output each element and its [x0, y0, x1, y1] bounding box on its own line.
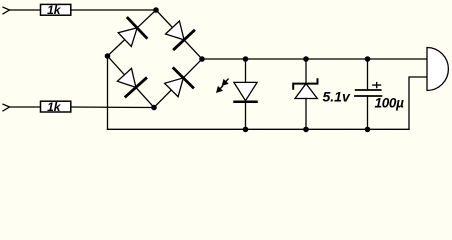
- wire: bridge bottom-right diagonal: [154, 59, 202, 108]
- wire: R2 to bridge bottom node (crosses vertical wire, no junction): [71, 106, 154, 109]
- wire: top input to R1: [10, 9, 41, 11]
- wire: zener top lead: [305, 59, 307, 84]
- node: bottom rail / zener: [303, 127, 309, 133]
- LED D5: [216, 79, 257, 102]
- node: top rail / LED: [243, 56, 249, 62]
- wire: LED top lead: [245, 59, 247, 82]
- node: top rail / zener: [303, 56, 309, 62]
- node: bridge right junction: [199, 56, 205, 62]
- wire: capacitor bottom lead: [367, 96, 369, 129]
- zener diode D6 5.1v: [293, 79, 351, 104]
- svg-text:100µ: 100µ: [375, 96, 405, 111]
- diode D4 (bridge bottom to right): [165, 68, 193, 96]
- node: top rail / capacitor: [365, 56, 371, 62]
- wire: capacitor top lead: [367, 59, 369, 90]
- wire: bridge left-top diagonal: [108, 10, 157, 56]
- resistor R2 1k: [41, 100, 71, 114]
- node: bridge bottom junction: [151, 105, 157, 111]
- diode D2 (bridge top to right): [166, 21, 194, 49]
- diode D1 (bridge left to top): [118, 18, 146, 46]
- wire: bridge left-bottom diagonal: [108, 56, 155, 108]
- diode D3 (bridge left to bottom): [117, 68, 145, 96]
- wire: top positive rail: [202, 58, 427, 60]
- node: bridge top junction: [153, 7, 159, 13]
- wire: bridge left node down to bottom rail: [107, 56, 109, 129]
- node: bottom rail / capacitor: [365, 127, 371, 133]
- wire: bridge top-right diagonal: [156, 10, 202, 59]
- node: bridge left junction: [105, 53, 111, 59]
- svg-text:1k: 1k: [47, 100, 62, 114]
- node: bottom rail / LED: [243, 127, 249, 133]
- svg-text:1k: 1k: [47, 3, 62, 17]
- wire: bottom input to R2: [10, 106, 41, 108]
- svg-text:5.1v: 5.1v: [323, 88, 351, 104]
- wire: bottom rail: [108, 128, 410, 130]
- wire: bottom rail up to earphone: [409, 77, 427, 129]
- wire: zener bottom lead: [305, 99, 307, 130]
- resistor R1 1k: [41, 3, 71, 17]
- earphone LS1: [427, 48, 448, 91]
- input terminal (top): [3, 7, 10, 14]
- capacitor C1 100u (polarized): [355, 83, 404, 111]
- input terminal (bottom): [3, 104, 10, 111]
- wire: R1 to bridge top node: [71, 9, 156, 11]
- wire: LED bottom lead: [245, 102, 247, 130]
